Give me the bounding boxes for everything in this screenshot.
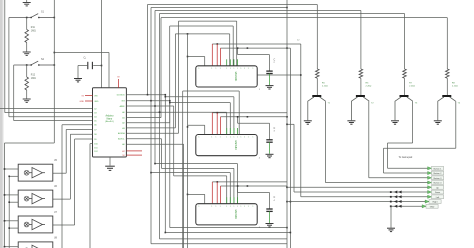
svg-text:2.2kΩ: 2.2kΩ [322, 85, 328, 87]
svg-text:D9: D9 [94, 139, 96, 141]
wire U1 pin D10 drop [90, 143, 93, 145]
svg-text:1: 1 [248, 137, 249, 139]
resistor R6 [359, 69, 363, 78]
wire pin row 6 [126, 122, 169, 124]
wire pin row 4 to IC2 pin [126, 111, 226, 113]
svg-text:1: 1 [253, 206, 254, 208]
node Button 1 net label [428, 167, 432, 170]
wire dropper x165.3 bus1 [164, 95, 166, 233]
wire top line 2 to x287 [151, 7, 287, 9]
svg-text:1: 1 [216, 68, 217, 70]
node IC3 supply A [217, 181, 219, 183]
resistor R8 [446, 69, 450, 78]
node x155 IC3 tap [154, 163, 156, 165]
svg-text:1: 1 [244, 206, 245, 208]
node x287 mid [286, 116, 288, 118]
wire U7 cathode [9, 227, 18, 229]
wire U6 cathode [9, 201, 18, 203]
wire vertical x294 to row6 [287, 123, 294, 125]
svg-text:1: 1 [248, 206, 249, 208]
svg-text:1: 1 [211, 137, 212, 139]
wire S2 to resistor R12 [26, 65, 28, 77]
node x287 row8b [286, 201, 288, 203]
wire bus S2 to Nano pin [14, 120, 93, 122]
svg-text:D8: D8 [94, 134, 96, 136]
svg-text:1: 1 [233, 68, 234, 70]
wire mid line y33.9 serial [175, 33, 229, 35]
svg-text:1: 1 [233, 137, 234, 139]
svg-text:D2: D2 [94, 109, 96, 111]
node pin arrows row Right [390, 200, 402, 203]
node x169.8 stair tap [169, 102, 171, 104]
svg-text:Left: Left [436, 196, 440, 199]
svg-text:1: 1 [220, 68, 221, 70]
wire S0 left rail [4, 0, 6, 113]
svg-text:C: C [274, 196, 276, 199]
wire bottom bus 2 [165, 232, 290, 234]
svg-text:R12: R12 [31, 75, 36, 77]
node U7 anode junction [4, 220, 6, 222]
wire serial vertical x187.5 [187, 34, 189, 248]
svg-text:A5/SCL: A5/SCL [118, 138, 125, 141]
svg-text:1: 1 [216, 206, 217, 208]
sheet frame left border [0, 0, 2, 248]
node row3-x155 [154, 105, 156, 107]
wire pin row 7 [126, 127, 175, 129]
wire U1 left GND red stub [85, 100, 93, 102]
svg-text:2.2kΩ: 2.2kΩ [452, 85, 458, 87]
svg-text:D4: D4 [94, 117, 96, 119]
svg-text:74HC595: 74HC595 [236, 71, 238, 81]
node IC2 supply A [217, 112, 219, 114]
wire IC3 bracket c [151, 172, 230, 174]
wire riser x169.7 [169, 26, 171, 123]
wire top line 1 to T1 [148, 4, 318, 6]
svg-text:C: C [274, 127, 276, 130]
wire bus S1 to Nano pin [9, 116, 93, 118]
ground C1 [74, 79, 82, 82]
svg-text:1: 1 [253, 68, 254, 70]
wire R7 to T3 base [404, 78, 406, 95]
node C1 net junction [101, 65, 103, 67]
wire U1 pin D7 drop to opto1 [66, 129, 92, 131]
svg-text:1: 1 [226, 68, 227, 70]
node U6 cathode junction [8, 201, 10, 203]
ground R11 [23, 52, 31, 55]
resistor R7 [403, 69, 407, 78]
op-amp U1 Arduino Nano box [93, 88, 127, 157]
ground R12 [23, 99, 31, 102]
svg-text:1: 1 [230, 206, 231, 208]
wire U5 anode [5, 168, 19, 170]
wire IC1 pin stubs [226, 59, 228, 66]
node junction S2-right [54, 64, 56, 66]
capacitor C4 [266, 209, 272, 211]
wire bottom bus 4 [151, 243, 287, 245]
wire U1 bottom red pin GND2 [126, 154, 142, 156]
wire IC3 bracket a [155, 163, 238, 165]
wire bus S0 to Nano pin [5, 112, 93, 114]
node serial to IC3 [187, 194, 189, 196]
svg-text:Nano: Nano [107, 118, 113, 120]
wire riser to top line 1 [147, 5, 149, 95]
switch S1 [9, 14, 54, 18]
node junction S2-left [26, 64, 28, 66]
wire IC1 right pin QH [257, 74, 301, 76]
node Button 2 net label [428, 171, 432, 174]
svg-text:D3: D3 [94, 113, 96, 115]
node serial to IC2 [187, 126, 189, 128]
node pin arrows row GND [390, 205, 402, 208]
wire IC3 pin stubs [226, 197, 228, 204]
wire U1 left RAW red stub [85, 94, 93, 96]
svg-text:1: 1 [226, 137, 227, 139]
wire T3 collector stair to row1 [412, 101, 414, 143]
wire IC2 pin stubs [226, 128, 228, 135]
wire IC1 bracket b [232, 26, 234, 66]
wire opto cathode bus [8, 176, 10, 248]
node U8 anode junction [4, 246, 6, 248]
svg-text:A1: A1 [122, 117, 124, 120]
op-amp IC1 74HC595 box [196, 66, 257, 87]
wire S1 left rail [8, 18, 10, 117]
svg-text:A7: A7 [122, 150, 124, 153]
svg-text:1: 1 [244, 137, 245, 139]
capacitor C3 [266, 140, 272, 142]
transistor T1 [312, 95, 321, 97]
wire feed T4 [446, 18, 448, 69]
node U7 cathode junction [8, 227, 10, 229]
node Right net label [425, 200, 429, 203]
ground T2 emitter [347, 121, 355, 124]
svg-text:1: 1 [237, 68, 238, 70]
transistor T4 [442, 95, 451, 97]
svg-text:Button 1: Button 1 [434, 167, 443, 170]
wire serial feed IC1 [188, 56, 205, 58]
node bus2 tap [165, 232, 167, 234]
wire C3 to ground [269, 142, 271, 154]
svg-text:AREF: AREF [120, 105, 126, 108]
wire pin row 3 [126, 105, 173, 107]
svg-text:GND: GND [80, 101, 85, 103]
wire R11 to ground [26, 43, 28, 52]
wire right rail of switch column [53, 0, 55, 143]
wire serial feed IC2 [188, 124, 205, 126]
node cap feed C2 [237, 47, 239, 49]
wire connector row9 GND [390, 205, 426, 207]
node x290.4 supply-B tap [286, 47, 288, 49]
node IC3 supply B [247, 185, 249, 187]
capacitor C3 feed [237, 117, 239, 124]
svg-text:3V3: 3V3 [121, 101, 124, 103]
node x151 IC3 tap [150, 172, 152, 174]
wire riser x178.5 [178, 21, 180, 133]
svg-text:74HC595: 74HC595 [236, 140, 238, 150]
ground U1 [105, 166, 115, 170]
node Button 3 net label [428, 176, 432, 179]
svg-text:1: 1 [199, 206, 200, 208]
wire U1 pin D6 drop to opto4 [62, 124, 93, 126]
node rail-C1 junction [54, 52, 56, 54]
wire pin row 5 [126, 117, 161, 119]
svg-text:D13/SCK: D13/SCK [117, 95, 126, 97]
op-amp U6 optocoupler box [18, 190, 53, 207]
wire connector row5 Up [287, 186, 428, 188]
svg-text:1: 1 [220, 206, 221, 208]
wire U1 pin D8 drop to opto2 [70, 133, 92, 135]
svg-text:1: 1 [199, 68, 200, 70]
wire serial feed IC3 [188, 193, 205, 195]
wire C1 branch [101, 0, 103, 88]
ground C4 [266, 224, 274, 227]
node U6 anode junction [4, 194, 6, 196]
wire bottom bus 3 [160, 238, 288, 240]
node row2 end [169, 100, 171, 102]
svg-text:1: 1 [211, 68, 212, 70]
wire feed T3 [404, 14, 406, 70]
svg-text:1: 1 [241, 68, 242, 70]
node serial tap [187, 33, 189, 35]
svg-text:1: 1 [248, 68, 249, 70]
node junction S1-right [54, 17, 56, 19]
wire IC1 bracket a [229, 34, 231, 66]
svg-text:2.2kΩ: 2.2kΩ [409, 85, 415, 87]
svg-text:R11: R11 [31, 27, 36, 29]
svg-text:1: 1 [216, 137, 217, 139]
wire riser x175.4 [174, 34, 176, 128]
svg-text:Right: Right [433, 201, 438, 204]
op-amp U8 optocoupler box [18, 242, 53, 248]
svg-text:C₁: C₁ [84, 57, 87, 60]
capacitor C1 [93, 65, 101, 67]
wire C4 to ground [269, 211, 271, 223]
wire top line 3 to T2 [155, 10, 361, 12]
wire top line 5 to T4 [161, 17, 447, 19]
wire dropper x161.5 to IC3 bracket b [161, 139, 163, 169]
op-amp U5 optocoupler box [18, 164, 53, 181]
wire riser/dropper x151 [150, 8, 152, 244]
wire riser x159.5 [159, 14, 161, 239]
node top line2 x287 [286, 7, 288, 9]
svg-text:1: 1 [199, 137, 200, 139]
node U5 cathode junction [8, 176, 10, 178]
svg-text:A0: A0 [122, 111, 124, 114]
svg-text:74HC595: 74HC595 [236, 209, 238, 219]
svg-text:Button 2: Button 2 [434, 172, 443, 175]
resistor R12 [25, 77, 29, 90]
wire IC2 VCC risers [211, 113, 213, 135]
wire mid line y26 [170, 25, 234, 27]
node x287 row5 [286, 187, 288, 189]
node bus1-x287 [286, 227, 288, 229]
wire dropper x169.8 bus2 [169, 101, 171, 228]
op-amp U7 optocoupler box [18, 216, 53, 233]
node IC1 right pin tap [300, 74, 302, 76]
wire C1 to ground [77, 66, 79, 79]
node row4-riser [159, 111, 161, 113]
wire feed T2 [360, 11, 362, 70]
wire top line 4 to T3 [160, 13, 405, 15]
svg-text:D12: D12 [94, 151, 97, 153]
svg-text:1: 1 [226, 206, 227, 208]
svg-text:Arduino: Arduino [105, 115, 114, 118]
wire riser/dropper x155 [154, 11, 156, 164]
ground gamepad [387, 228, 395, 231]
wire IC1 VCC risers [211, 44, 213, 66]
node IC1 supply A [217, 43, 219, 45]
wire pin row 9 [126, 138, 161, 140]
wire IC3 supply line A [212, 181, 287, 183]
wire connector row8 Right [287, 201, 429, 203]
wire IC3 bracket d [173, 106, 175, 176]
svg-text:Button 4: Button 4 [434, 182, 443, 185]
wire IC2 bracket c [170, 102, 231, 104]
node Button 4 net label [428, 181, 432, 184]
svg-text:GND: GND [430, 206, 435, 208]
wire vertical x290.4 from IC1 supply B [289, 48, 291, 248]
svg-text:2.2kΩ: 2.2kΩ [366, 85, 372, 87]
wire S1 to resistor R11 [26, 18, 28, 30]
node Down net label [428, 190, 432, 193]
wire rail to C1 [54, 52, 109, 54]
node x290.4 bus2 [290, 232, 292, 234]
node pin arrows row Left [390, 195, 402, 198]
node x287 y124.3 [286, 124, 288, 126]
op-amp IC3 74HC595 box [196, 204, 257, 225]
wire U1 top pin1 [108, 53, 110, 88]
wire IC2 supply line A [212, 112, 287, 114]
wire x182.7 long vertical with IC2 bracket a [183, 90, 240, 92]
node row2-x151 [150, 100, 152, 102]
node x290.4 row8 [290, 201, 292, 203]
resistor R5 [316, 69, 320, 78]
wire connector row6 Down [294, 191, 428, 193]
node cap feed C3 [237, 116, 239, 118]
svg-text:1: 1 [253, 137, 254, 139]
svg-text:(Rev3.0): (Rev3.0) [105, 121, 114, 123]
wire T4 collector stair to row2 [455, 101, 457, 148]
wire R6 to T2 base [360, 78, 362, 95]
wire big vertical x287 [286, 0, 288, 248]
svg-text:D7: D7 [94, 129, 96, 131]
svg-text:GND: GND [94, 101, 99, 103]
node serial to IC1 [187, 56, 189, 58]
wire R12 to ground [26, 90, 28, 99]
svg-text:A6: A6 [122, 143, 124, 146]
wire pin row 8 [126, 132, 178, 134]
wire U1 pin D9 drop to opto3 [75, 138, 93, 140]
svg-text:1: 1 [233, 206, 234, 208]
node Left net label [428, 195, 432, 198]
svg-text:D6: D6 [94, 125, 96, 127]
capacitor C2 feed [237, 48, 239, 55]
node cap feed C4 [237, 185, 239, 187]
resistor R11 [25, 30, 29, 43]
svg-text:Button 3: Button 3 [434, 177, 443, 180]
svg-text:D11: D11 [94, 147, 97, 149]
wire T2 collector to row3 [368, 101, 370, 178]
capacitor C2 [266, 71, 272, 73]
wire U6 anode [5, 194, 19, 196]
svg-text:1: 1 [230, 68, 231, 70]
wire R5 to T1 base [316, 78, 318, 95]
wire R8 to T4 base [446, 78, 448, 95]
svg-text:1: 1 [241, 137, 242, 139]
wire mid line y21.1 [179, 20, 237, 22]
svg-text:1MΩ: 1MΩ [31, 78, 36, 80]
node junction S1-left [26, 17, 28, 19]
svg-text:1: 1 [237, 137, 238, 139]
wire U1 bottom red pin VIN [126, 150, 142, 152]
svg-text:D5: D5 [94, 121, 96, 123]
ground (cropped cell above S1) [26, 0, 28, 2]
wire T1 collector to row4 [324, 101, 326, 182]
wire rail to opto bus [5, 142, 55, 144]
svg-text:A3: A3 [122, 127, 124, 130]
node row1-riser1 [147, 94, 149, 96]
ground C2 [266, 86, 274, 89]
capacitor C4 feed [237, 186, 239, 193]
wire U8 anode [5, 246, 19, 248]
svg-text:Down: Down [435, 192, 441, 194]
wire IC2 bracket d [226, 112, 228, 134]
wire IC2 supply line B [221, 116, 288, 118]
ground T4 emitter [434, 121, 442, 124]
wire C2 to ground [269, 74, 271, 86]
ground T3 emitter [391, 121, 399, 124]
node IC1 supply B [247, 47, 249, 49]
wire U1 bottom ground stub [109, 157, 111, 166]
wire opto anode bus [4, 143, 6, 247]
svg-text:1: 1 [230, 137, 231, 139]
svg-text:A4/SDA: A4/SDA [118, 132, 125, 135]
wire IC2 bracket b [165, 96, 234, 98]
node x165.3 stair tap [165, 96, 167, 98]
svg-text:C: C [274, 58, 276, 61]
svg-text:1MΩ: 1MΩ [31, 31, 36, 33]
node pin arrows row Down [390, 191, 402, 194]
wire feed T1 [316, 5, 318, 70]
svg-text:1: 1 [211, 206, 212, 208]
svg-text:1: 1 [220, 137, 221, 139]
wire IC1 supply line A [212, 43, 300, 45]
wire riser x163 [160, 18, 162, 118]
wire long dropper x183.6 [183, 144, 185, 248]
wire GND row drop [390, 206, 392, 227]
node IC2 supply B [247, 116, 249, 118]
svg-text:D10: D10 [94, 144, 97, 146]
wire pin row 1 [126, 94, 165, 96]
wire U7 anode [5, 220, 19, 222]
ground C3 [266, 154, 274, 157]
wire IC1 supply line B [221, 47, 291, 49]
transistor T2 [356, 95, 365, 97]
svg-text:A2: A2 [122, 122, 124, 125]
transistor T3 [400, 95, 409, 97]
svg-text:1: 1 [237, 206, 238, 208]
svg-text:To Gamepad: To Gamepad [399, 156, 413, 159]
wire IC3 VCC risers [211, 182, 213, 204]
svg-text:1: 1 [241, 206, 242, 208]
node GND net label [422, 205, 426, 208]
wire U5 cathode [9, 175, 18, 177]
node row1 end [165, 94, 167, 96]
wire bus edge to Nano pin [0, 108, 93, 110]
wire vertical x300.8 to row7 [300, 44, 302, 197]
wire pin row 10 [126, 143, 183, 145]
wire IC1 bracket c [236, 21, 238, 66]
wire bottom bus 1 [170, 227, 287, 229]
